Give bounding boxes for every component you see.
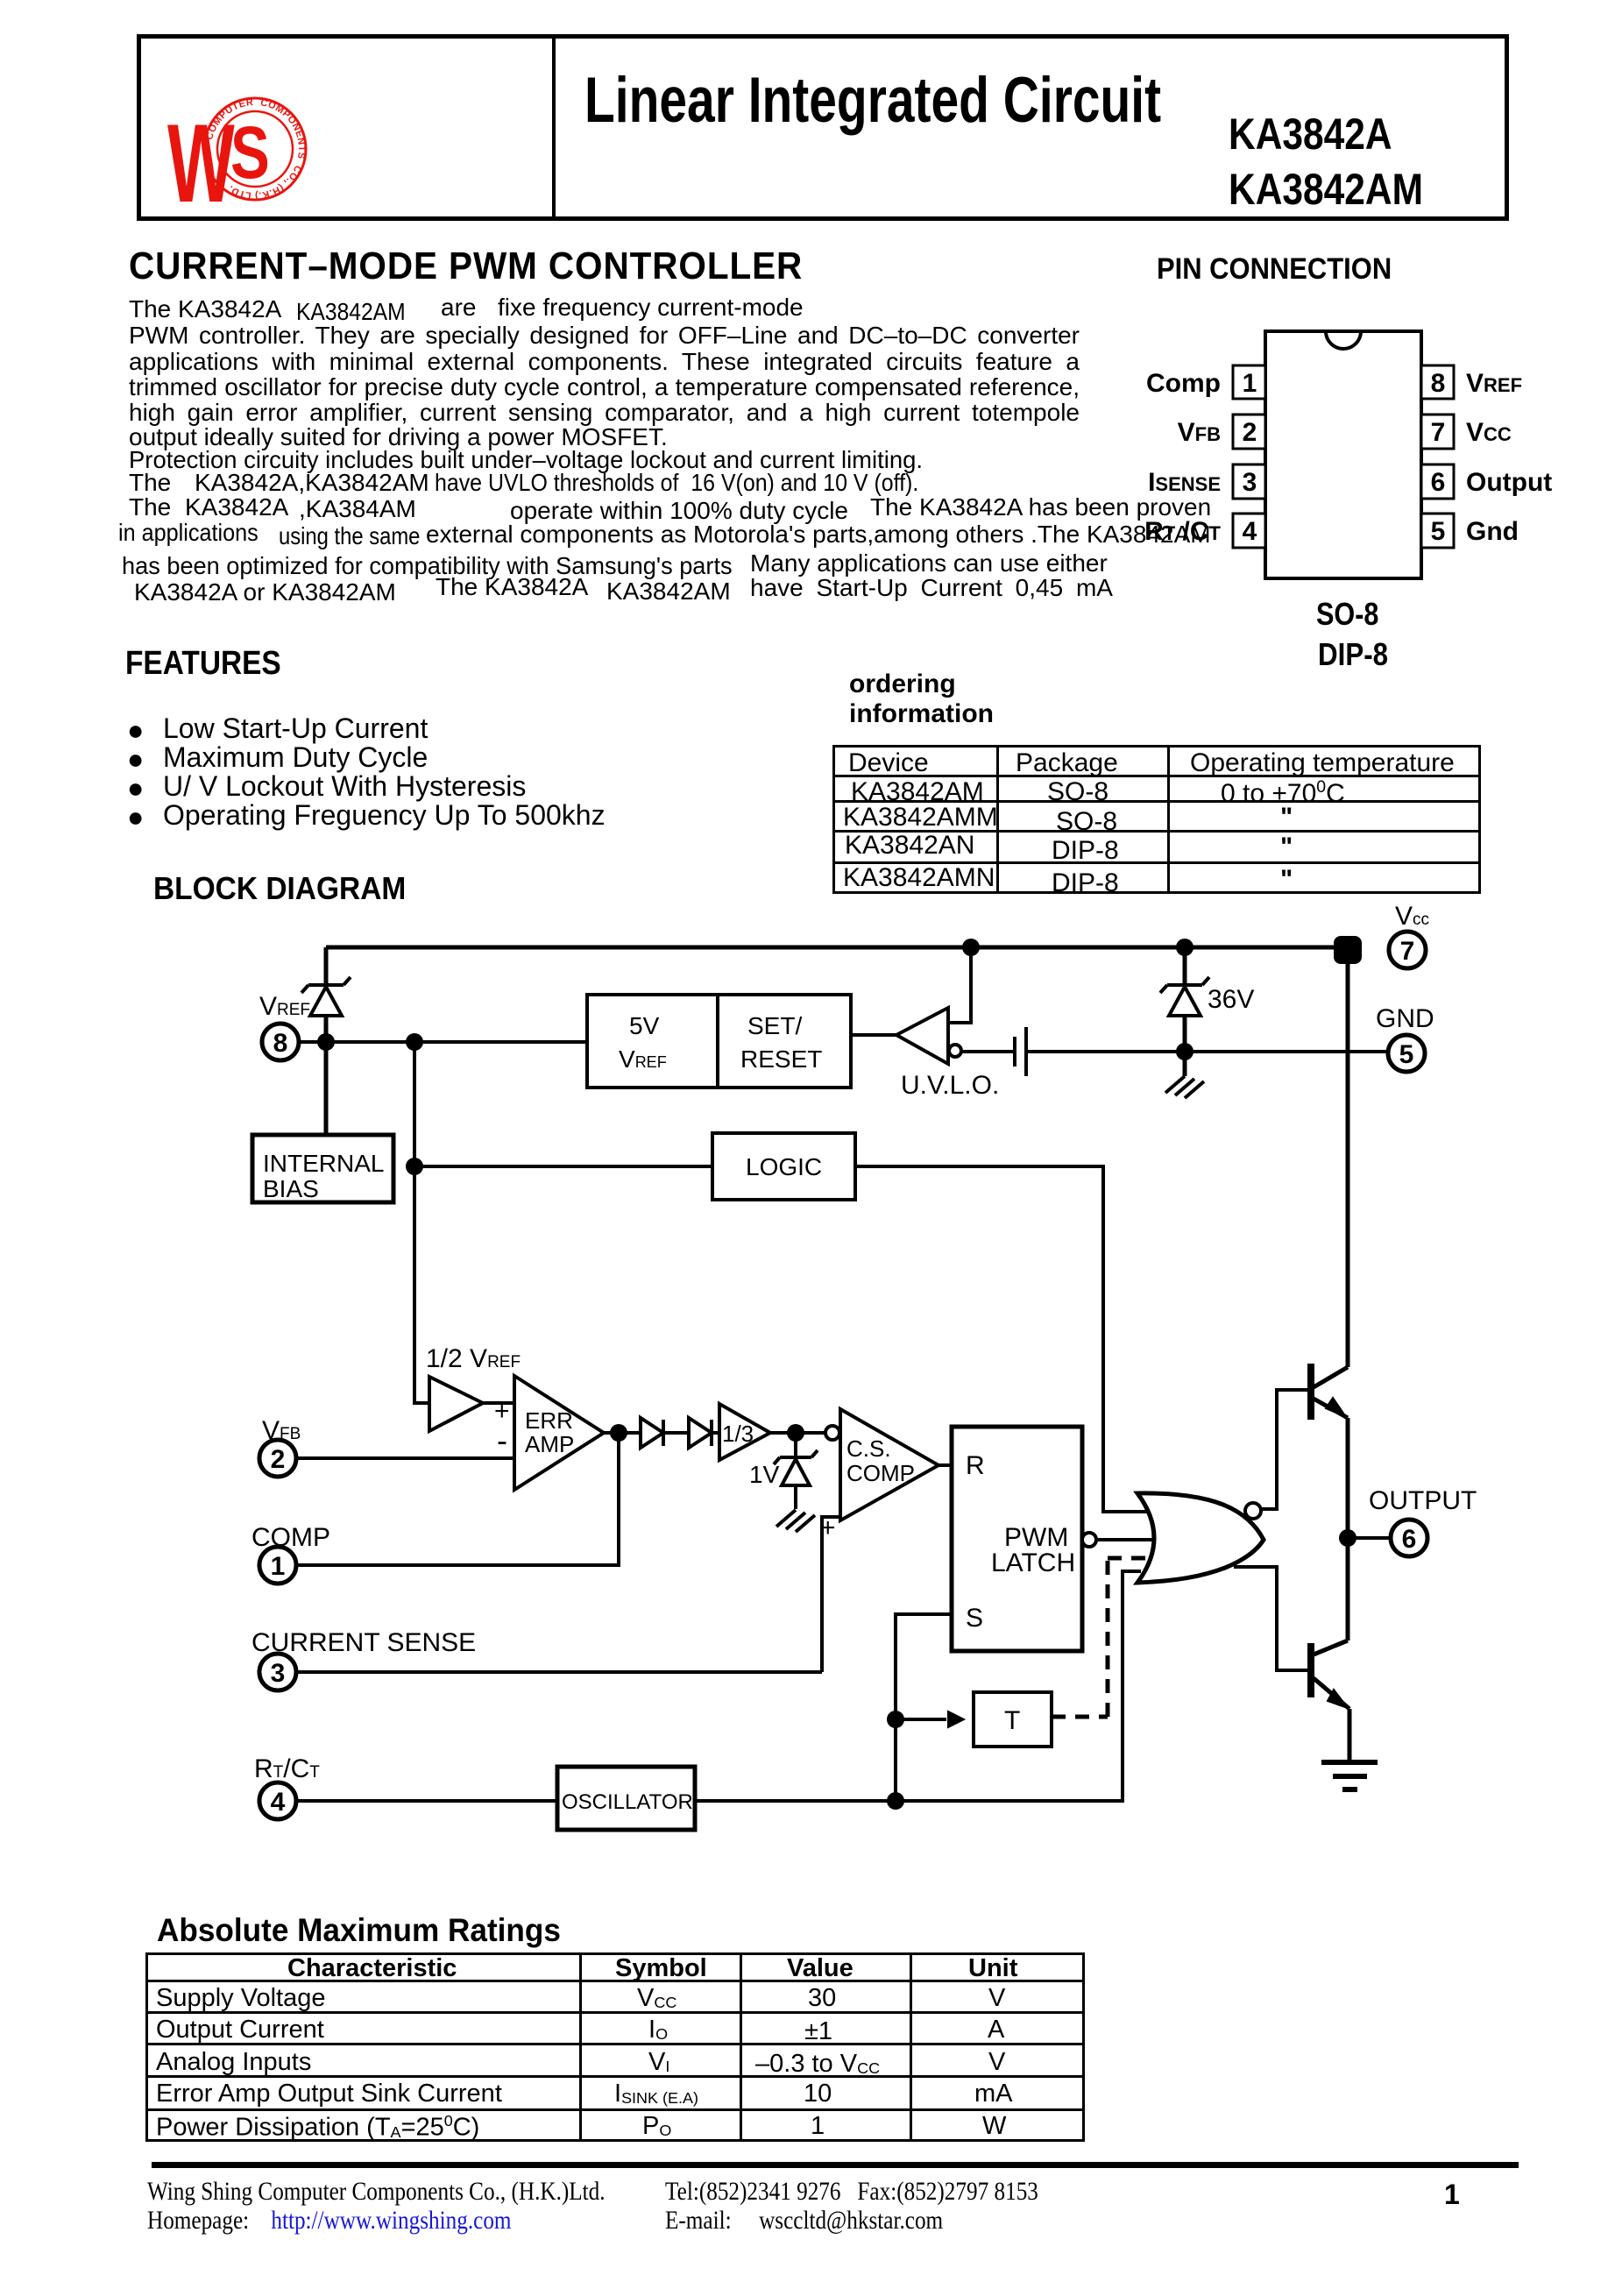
svg-text:+: +: [820, 1513, 836, 1542]
svg-text:RT/CT: RT/CT: [254, 1754, 320, 1783]
svg-text:Output: Output: [1466, 468, 1552, 497]
svg-text:6: 6: [1402, 1525, 1417, 1554]
svg-text:C.S.: C.S.: [846, 1435, 891, 1462]
svg-text:1V: 1V: [749, 1461, 780, 1488]
svg-text:6: 6: [1431, 468, 1446, 497]
svg-text:AMP: AMP: [525, 1431, 574, 1457]
svg-text:T: T: [1004, 1706, 1020, 1735]
svg-text:1/3: 1/3: [722, 1421, 754, 1447]
svg-text:CURRENT SENSE: CURRENT SENSE: [251, 1628, 476, 1657]
svg-text:SET/: SET/: [747, 1012, 802, 1039]
svg-text:LATCH: LATCH: [991, 1548, 1075, 1577]
svg-text:BIAS: BIAS: [263, 1175, 319, 1202]
svg-text:Vcc: Vcc: [1395, 902, 1429, 931]
svg-text:S: S: [230, 112, 270, 195]
svg-text:RT /CT: RT /CT: [1144, 517, 1221, 546]
svg-text:U.V.L.O.: U.V.L.O.: [901, 1071, 999, 1100]
svg-text:1: 1: [271, 1552, 286, 1581]
svg-text:ERR: ERR: [525, 1407, 573, 1434]
svg-text:5: 5: [1431, 517, 1446, 546]
svg-text:7: 7: [1400, 937, 1415, 966]
svg-text:4: 4: [271, 1788, 286, 1817]
svg-text:COMP: COMP: [251, 1523, 330, 1552]
svg-text:5: 5: [1399, 1040, 1414, 1069]
svg-text:Gnd: Gnd: [1466, 517, 1519, 546]
svg-text:INTERNAL: INTERNAL: [263, 1150, 384, 1177]
svg-text:OUTPUT: OUTPUT: [1369, 1486, 1477, 1515]
svg-text:S: S: [966, 1604, 983, 1633]
svg-text:8: 8: [273, 1029, 288, 1058]
svg-text:VCC: VCC: [1466, 418, 1512, 447]
svg-text:-: -: [497, 1422, 507, 1458]
svg-text:VREF: VREF: [1466, 369, 1522, 398]
svg-text:Comp: Comp: [1146, 369, 1221, 398]
svg-text:3: 3: [1243, 468, 1257, 497]
svg-text:1: 1: [1243, 369, 1257, 398]
svg-text:RESET: RESET: [740, 1045, 822, 1073]
svg-text:36V: 36V: [1208, 985, 1254, 1014]
svg-text:W: W: [167, 100, 235, 225]
svg-text:8: 8: [1431, 369, 1446, 398]
svg-text:2: 2: [1243, 418, 1257, 447]
svg-text:7: 7: [1431, 418, 1446, 447]
svg-text:GND: GND: [1376, 1004, 1434, 1033]
svg-text:VFB: VFB: [1178, 418, 1221, 447]
svg-text:5V: 5V: [629, 1012, 660, 1039]
svg-text:2: 2: [271, 1445, 286, 1474]
svg-text:VFB: VFB: [262, 1416, 301, 1445]
svg-text:1/2 VREF: 1/2 VREF: [426, 1344, 521, 1373]
svg-text:LOGIC: LOGIC: [746, 1153, 822, 1180]
svg-text:COMP: COMP: [846, 1460, 915, 1486]
svg-text:OSCILLATOR: OSCILLATOR: [562, 1790, 693, 1814]
svg-text:VREF: VREF: [619, 1045, 667, 1073]
svg-text:4: 4: [1243, 517, 1257, 546]
svg-text:VREF: VREF: [259, 992, 310, 1021]
svg-text:R: R: [966, 1451, 985, 1480]
svg-text:3: 3: [271, 1659, 286, 1688]
svg-text:ISENSE: ISENSE: [1148, 468, 1221, 497]
